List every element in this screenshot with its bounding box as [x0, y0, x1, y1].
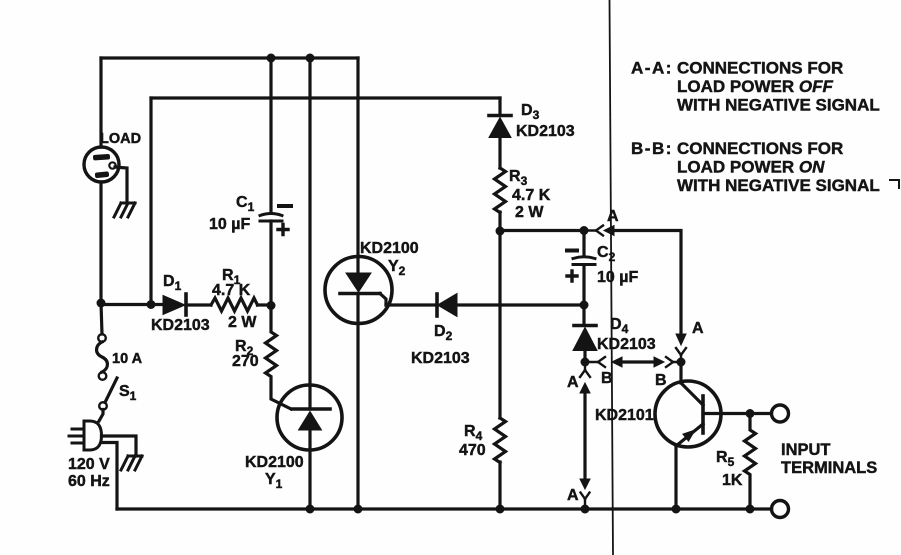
svg-text:4.7 K: 4.7 K [512, 187, 551, 204]
fold line page divider [610, 0, 614, 555]
terminal fork above bottom rail at x=585 [581, 493, 590, 510]
terminal input bottom circle [772, 501, 789, 518]
wire D2 to D4 junction [457, 303, 584, 306]
svg-text:KD2103: KD2103 [597, 336, 656, 353]
wire left vertical to LOAD [99, 58, 102, 147]
resistor R4 zigzag [495, 418, 506, 463]
svg-text:470: 470 [459, 442, 486, 459]
wire R4 to bottom rail [498, 462, 501, 509]
svg-text:A: A [692, 320, 704, 337]
node junction dot R1/C1/R2 [267, 301, 276, 310]
svg-text:R5: R5 [716, 449, 735, 469]
svg-text:KD2103: KD2103 [411, 350, 470, 367]
node junction dot D4 bottom [581, 358, 590, 367]
node junction dot rail x=358 [354, 505, 363, 514]
wire plug to bottom rail [102, 443, 118, 510]
terminal fork B left at D4 bottom [585, 357, 605, 367]
svg-text:R3: R3 [509, 168, 528, 188]
svg-text:2 W: 2 W [228, 314, 257, 331]
wire bottom rail [117, 507, 772, 510]
wire Y1 anode to bottom rail [308, 430, 311, 509]
svg-text:D3: D3 [521, 102, 540, 122]
wire collector junction to transistor [679, 362, 682, 383]
svg-text:R4: R4 [464, 423, 483, 443]
node junction dot C2 bottom / D2 row [580, 301, 589, 310]
svg-text:60 Hz: 60 Hz [68, 473, 110, 490]
wire R3 to junction [498, 212, 501, 231]
wire Y2 gate to D2 [386, 303, 437, 306]
wire C1 bottom to junction [269, 221, 272, 305]
wire base to input terminal [703, 412, 771, 415]
node junction dot collector/B [677, 358, 686, 367]
node junction dot top rail at Y1 branch [306, 54, 315, 63]
node junction dot rail x=676 [672, 505, 681, 514]
capacitor C2 [573, 230, 595, 305]
svg-text:Y2: Y2 [388, 258, 406, 278]
wire R1 to junction [258, 303, 272, 306]
svg-text:LOAD POWER OFF: LOAD POWER OFF [677, 77, 833, 96]
svg-text:KD2103: KD2103 [151, 317, 210, 334]
node junction dot rail x=500 [496, 505, 505, 514]
svg-text:A: A [567, 487, 579, 504]
svg-text:LOAD POWER ON: LOAD POWER ON [677, 158, 825, 177]
terminal input top circle [772, 405, 789, 422]
node junction dot x=151 on D1 row [147, 300, 156, 309]
node junction dot top rail at C1 branch [267, 54, 276, 63]
transistor Q1 KD2101 [655, 381, 721, 447]
svg-text:KD2101: KD2101 [595, 407, 654, 424]
label minus of C2 [567, 249, 577, 253]
wire emitter to bottom rail [674, 446, 677, 509]
SCR Y2 KD2100 [325, 257, 392, 324]
svg-text:A-A:: A-A: [631, 59, 673, 78]
svg-text:10 A: 10 A [112, 351, 143, 367]
wire Y2 anode vertical from top rail [356, 58, 359, 273]
terminal fork below D4 junction [580, 362, 590, 377]
svg-text:D2: D2 [434, 323, 453, 343]
wire LOAD bottom to D1 row [99, 182, 102, 303]
svg-text:KD2100: KD2100 [245, 454, 304, 471]
label minus of C1 [279, 204, 291, 208]
wire switch to plug [99, 410, 103, 422]
wire LOAD ground tap [115, 167, 127, 202]
resistor R2 zigzag [266, 305, 292, 409]
resistor R1 zigzag [211, 298, 258, 311]
svg-text:WITH NEGATIVE SIGNAL: WITH NEGATIVE SIGNAL [677, 96, 880, 115]
svg-text:270: 270 [232, 353, 259, 370]
svg-text:KD2100: KD2100 [360, 240, 419, 257]
svg-text:INPUT: INPUT [781, 441, 831, 459]
svg-text:4.7 K: 4.7 K [212, 282, 251, 299]
SCR Y1 KD2100 [277, 385, 342, 450]
diode D1 KD2103 [163, 294, 186, 315]
wire D1 row horizontal [101, 303, 163, 306]
wire plug to chassis ground [102, 436, 137, 456]
svg-text:C2: C2 [597, 244, 616, 264]
wire second rail y=98 [151, 96, 500, 99]
svg-text:KD2103: KD2103 [516, 123, 575, 140]
svg-text:10 µF: 10 µF [209, 216, 250, 233]
switch S1 [99, 378, 117, 410]
wire jumper A horizontal and corner down [613, 231, 681, 338]
resistor R5 zigzag [745, 414, 756, 510]
svg-text:A: A [607, 208, 619, 225]
resistor R3 zigzag [495, 168, 506, 213]
diode D2 KD2103 [437, 294, 457, 317]
svg-text:C1: C1 [236, 194, 255, 214]
load LOAD receptacle symbol [84, 147, 119, 182]
svg-text:CONNECTIONS FOR: CONNECTIONS FOR [677, 59, 843, 78]
node junction dot rail x=750 [746, 505, 755, 514]
svg-text:D4: D4 [610, 316, 629, 336]
svg-text:WITH NEGATIVE SIGNAL: WITH NEGATIVE SIGNAL [677, 176, 880, 195]
wire second rail right vertical to D3 [498, 98, 501, 114]
svg-text:CONNECTIONS FOR: CONNECTIONS FOR [677, 139, 843, 158]
wire D1 to R1 [186, 303, 211, 306]
capacitor C1 [260, 214, 282, 222]
wire top rail y=58 [101, 56, 358, 59]
node junction dot R3/R4 [496, 227, 505, 236]
diode D4 KD2103 [573, 305, 597, 362]
ground chassis ground at plug [121, 456, 142, 470]
wire Y2 cathode to bottom rail [356, 295, 359, 509]
svg-text:B: B [601, 370, 613, 387]
node junction dot base/R5 [746, 409, 755, 418]
wire C1 top from top rail [269, 58, 272, 213]
terminal fork Y above collector junction [676, 348, 686, 362]
stray mark right edge [890, 180, 899, 188]
node junction dot rail x=585 [581, 505, 590, 514]
plug 120V 60Hz [69, 421, 102, 450]
node junction dot left at D1 row [97, 299, 106, 308]
fuse 10A [97, 303, 108, 380]
jumper B-B with arrows both ends [612, 357, 664, 367]
svg-text:B-B:: B-B: [631, 139, 673, 158]
jumper A-A vertical with arrows both ends [580, 383, 590, 489]
label plus of C2 [567, 271, 577, 281]
svg-text:D1: D1 [163, 273, 182, 293]
wire second rail left vertical x=151 [149, 98, 152, 304]
jumper arrow A to transistor collector: arrowhead left [604, 226, 614, 236]
svg-text:TERMINALS: TERMINALS [781, 459, 877, 477]
diode D3 KD2103 [489, 116, 511, 138]
wire R4 feed vertical [498, 231, 501, 418]
svg-text:A: A [567, 374, 579, 391]
svg-text:10 µF: 10 µF [597, 269, 638, 286]
svg-text:Y1: Y1 [265, 471, 283, 491]
jumper arrow A down arrowhead [676, 334, 686, 345]
terminal fork B right at collector junction [666, 357, 681, 367]
svg-text:2 W: 2 W [515, 204, 544, 221]
svg-text:LOAD: LOAD [100, 131, 141, 147]
terminal fork A at C2 junction [584, 226, 603, 236]
wire D3 to R3 [498, 138, 501, 169]
node junction dot at C2 top [580, 226, 589, 235]
svg-text:1K: 1K [722, 472, 743, 489]
wire Y1 cathode vertical from top rail [308, 58, 311, 409]
wire R3 junction to C2 junction [500, 229, 584, 232]
svg-text:S1: S1 [119, 383, 137, 403]
label plus of C1 [278, 225, 288, 235]
node junction dot rail x=310 [306, 505, 315, 514]
svg-text:B: B [655, 372, 667, 389]
svg-text:120 V: 120 V [68, 456, 110, 473]
ground chassis ground at LOAD [114, 203, 135, 217]
